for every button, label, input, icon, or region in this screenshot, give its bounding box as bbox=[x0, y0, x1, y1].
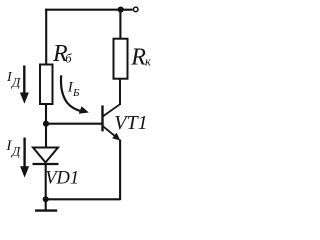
wire emitter vertical bbox=[119, 140, 121, 201]
current arrow Iд lower bbox=[23, 138, 25, 169]
svg-text:Б: Б bbox=[72, 87, 80, 99]
current arrow Iд upper bbox=[23, 66, 25, 95]
ground stub wire bbox=[45, 199, 47, 211]
node top junction bbox=[118, 7, 124, 13]
transistor VT1 emitter diagonal bbox=[103, 126, 117, 137]
wire left vertical middle bbox=[45, 104, 47, 147]
diode VD1 triangle bbox=[33, 148, 58, 163]
svg-text:Д: Д bbox=[10, 143, 21, 158]
svg-text:Д: Д bbox=[10, 74, 21, 89]
node base junction bbox=[43, 121, 49, 127]
svg-text:R: R bbox=[130, 45, 146, 71]
current arrow Iб curved bbox=[61, 75, 82, 111]
diode VD1 cathode bar bbox=[33, 163, 59, 165]
transistor VT1 base bar bbox=[101, 105, 103, 131]
wire collector vertical bbox=[119, 79, 121, 105]
ground bar bbox=[35, 209, 57, 211]
wire left vertical lower bbox=[45, 164, 47, 199]
wire left vertical upper bbox=[45, 9, 47, 66]
resistor Rб body bbox=[40, 65, 53, 105]
wire base bbox=[46, 123, 103, 125]
svg-text:б: б bbox=[65, 51, 72, 65]
wire right vertical upper bbox=[119, 10, 121, 40]
svg-text:VT1: VT1 bbox=[114, 112, 147, 134]
svg-text:VD1: VD1 bbox=[45, 168, 79, 188]
transistor VT1 collector diagonal bbox=[103, 104, 121, 117]
transistor VT1 emitter arrowhead bbox=[112, 133, 120, 141]
resistor Rк body bbox=[114, 39, 128, 79]
wire bottom rail bbox=[46, 198, 121, 200]
wire top rail bbox=[45, 9, 133, 11]
node bottom junction bbox=[43, 196, 49, 202]
svg-text:к: к bbox=[145, 54, 151, 68]
terminal output circle bbox=[133, 7, 138, 12]
